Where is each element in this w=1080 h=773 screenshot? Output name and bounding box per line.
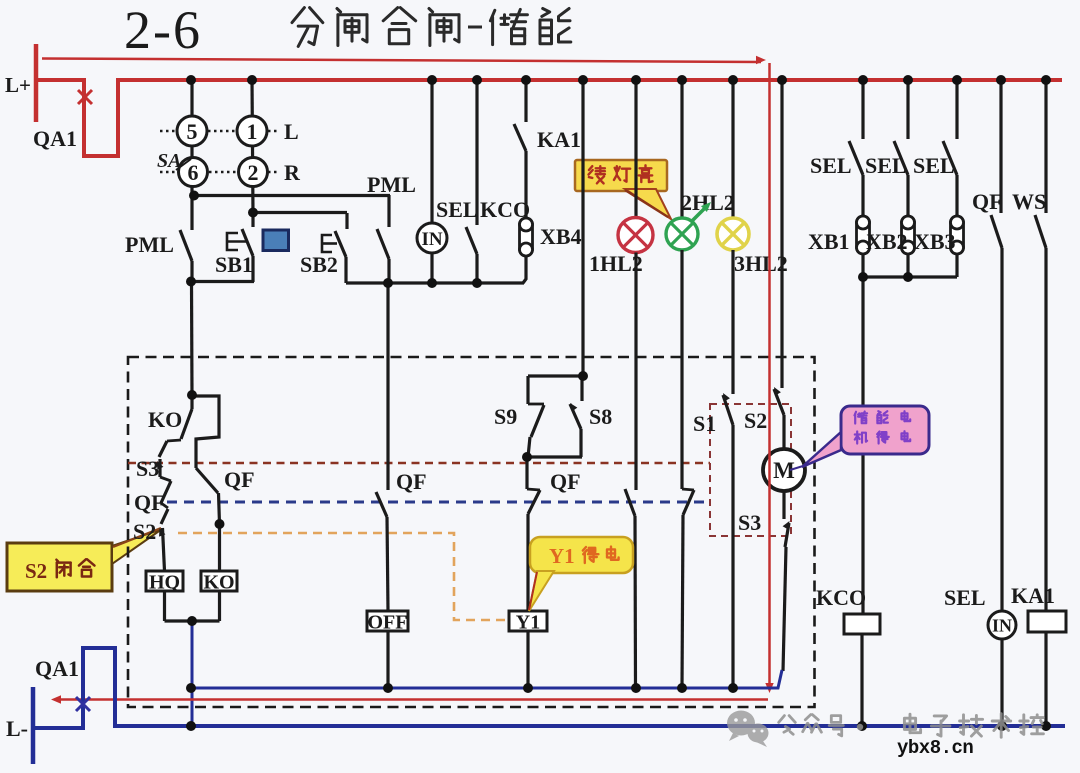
contact SEL over XB2 xyxy=(906,80,909,139)
callout chu-neng-dian-ji-de-dian (storage motor energized) xyxy=(841,406,929,454)
travel switch S3 xyxy=(783,521,790,530)
svg-text:Y1: Y1 xyxy=(516,612,540,634)
contact SEL over XB1 xyxy=(861,80,864,139)
svg-text:OFF: OFF xyxy=(368,612,408,634)
fuse link XB3 xyxy=(951,216,964,254)
svg-text:KO: KO xyxy=(203,572,234,594)
svg-text:QF: QF xyxy=(972,189,1003,214)
watermark gong-zhong-hao text xyxy=(779,716,796,735)
svg-text:S3: S3 xyxy=(738,510,761,535)
indicator IN circle bottom xyxy=(988,611,1016,639)
wire M to S3 xyxy=(782,491,785,519)
contact WS xyxy=(1044,80,1047,213)
svg-text:QA1: QA1 xyxy=(33,126,77,151)
svg-text:S9: S9 xyxy=(494,404,517,429)
contact QF above OFF xyxy=(376,492,387,517)
svg-text:SB2: SB2 xyxy=(300,252,338,277)
svg-text:ybx8.cn: ybx8.cn xyxy=(897,737,973,759)
coil OFF box xyxy=(367,611,408,631)
contact chain KO xyxy=(190,395,193,409)
contact SEL top-mid xyxy=(475,80,478,225)
coil Y1 box xyxy=(509,611,547,631)
wire 1HL2 down xyxy=(634,253,637,491)
callout box S2 bi-he (S2 closed) xyxy=(7,543,112,591)
wire column IN lamp xyxy=(430,80,433,223)
red return line with arrow xyxy=(56,698,768,701)
junction dots on L+ bus xyxy=(186,75,196,85)
svg-text:IN: IN xyxy=(421,229,442,250)
svg-text:S1: S1 xyxy=(693,411,716,436)
blue X mark on QA1 bottom xyxy=(76,697,90,711)
wire SB1 bottom row xyxy=(191,280,254,283)
wire OFF column xyxy=(386,283,389,490)
contact QF right branch xyxy=(192,396,219,468)
limit switch S9 xyxy=(526,376,529,404)
callout box lv-deng-liang (green lamp lit) xyxy=(575,160,667,191)
wire XB2 to row xyxy=(906,254,909,277)
rotary switch SA contact 6 xyxy=(179,158,208,187)
wire XB bottom row xyxy=(863,275,957,278)
L+ supply stub xyxy=(34,44,39,122)
wire XB1 to row xyxy=(861,254,864,277)
contact KA1 top xyxy=(524,80,527,122)
travel switch S1 xyxy=(723,393,730,402)
wire XB4 to row xyxy=(523,256,526,283)
rotary switch SA contact 5 xyxy=(177,116,207,146)
svg-text:S2: S2 xyxy=(25,559,47,583)
svg-text:SEL: SEL xyxy=(810,153,852,178)
indicator blue rectangle xyxy=(263,230,289,251)
large dashed enclosure box xyxy=(128,357,815,707)
wire column SA 1-2 from bus xyxy=(252,80,253,213)
wire KO bottom xyxy=(218,591,221,621)
wire coils to L- bus xyxy=(191,621,194,726)
wire Y1 to bottom xyxy=(526,631,529,688)
svg-text:XB1: XB1 xyxy=(808,229,850,254)
wire SB2-XB4 bottom row xyxy=(346,281,524,284)
wire OFF to bottom xyxy=(386,631,389,688)
svg-text:SEL: SEL xyxy=(944,585,986,610)
contact chain QF xyxy=(161,503,168,508)
red bus L+ with QA1 gap xyxy=(36,80,1062,156)
coil HQ box xyxy=(146,571,183,591)
contact QF top right xyxy=(999,80,1002,213)
contact QF mid xyxy=(525,457,528,489)
wire HQ bottom xyxy=(163,591,166,621)
svg-text:PML: PML xyxy=(125,232,174,257)
svg-text:2-6: 2-6 xyxy=(124,0,202,60)
limit switch S8 xyxy=(580,376,583,401)
travel switch S2 right xyxy=(774,387,781,396)
rotary switch SA contact 1 xyxy=(237,116,267,146)
red feedback line down xyxy=(768,63,771,686)
wire IN to row xyxy=(430,253,433,283)
contact QF under 2HL2 xyxy=(682,489,694,490)
wire XB row down to KCO xyxy=(861,277,864,614)
L- supply stub xyxy=(31,687,36,764)
wire 2HL2 down xyxy=(680,250,683,489)
watermark wechat icon xyxy=(727,711,769,748)
wire XB3 to row xyxy=(955,254,958,277)
blue dashed line QF level xyxy=(167,501,709,504)
svg-text:KA1: KA1 xyxy=(537,127,581,152)
svg-text:2HL2: 2HL2 xyxy=(681,190,735,215)
svg-text:L: L xyxy=(284,119,299,144)
wire column 1HL2 from bus xyxy=(634,80,637,218)
wire coils junction row xyxy=(165,619,220,622)
contact PML right xyxy=(387,195,390,227)
svg-text:IN: IN xyxy=(992,616,1012,636)
svg-text:2: 2 xyxy=(248,160,259,185)
svg-text:S2: S2 xyxy=(744,408,767,433)
svg-text:WS: WS xyxy=(1012,189,1046,214)
indicator IN circle xyxy=(417,223,447,253)
thin red feed line with arrow xyxy=(42,59,761,63)
svg-text:M: M xyxy=(773,458,795,483)
svg-text:QF: QF xyxy=(134,490,165,515)
wire column 3HL2 from bus xyxy=(731,80,734,218)
fuse link XB2 xyxy=(902,216,915,254)
wire S9-S8 bottom xyxy=(527,455,582,458)
svg-text:QF: QF xyxy=(396,469,427,494)
svg-text:PML: PML xyxy=(367,172,416,197)
wire PML-left bottom down to KO node xyxy=(190,282,194,395)
contact QF under 1HL2 xyxy=(625,489,635,516)
wire KA1 to L- bus xyxy=(1044,632,1047,726)
blue bus L- with QA1 gap xyxy=(33,648,1065,728)
lamp 2HL2 green xyxy=(666,218,698,250)
motor M circle xyxy=(763,449,805,491)
svg-text:SEL: SEL xyxy=(865,153,907,178)
dotted linkage row lower xyxy=(160,171,178,173)
wire node6 to PML-right xyxy=(194,194,390,197)
svg-text:1: 1 xyxy=(247,119,258,144)
wire column 2HL2 from bus xyxy=(680,80,683,218)
contact SEL over XB3 xyxy=(955,80,958,139)
svg-text:XB2: XB2 xyxy=(866,229,908,254)
junction dots elsewhere xyxy=(189,191,199,201)
svg-text:KO: KO xyxy=(148,407,182,432)
svg-text:HQ: HQ xyxy=(149,572,180,594)
svg-text:XB3: XB3 xyxy=(914,229,956,254)
contact chain S2 lead to HQ xyxy=(163,528,165,571)
svg-text:S3: S3 xyxy=(136,456,159,481)
wire column S2-M from bus xyxy=(780,80,783,388)
svg-text:Y1: Y1 xyxy=(549,544,575,568)
svg-text:L+: L+ xyxy=(5,73,31,97)
lamp 1HL2 red xyxy=(618,218,653,253)
dotted linkage row upper xyxy=(160,130,177,132)
svg-text:KA1: KA1 xyxy=(1011,583,1055,608)
svg-text:L-: L- xyxy=(6,716,28,741)
wire column S9-S8 from bus xyxy=(581,80,584,376)
coil KO box xyxy=(201,571,237,591)
svg-text:SEL: SEL xyxy=(436,197,478,222)
contact PML left xyxy=(190,196,193,230)
svg-text:SB1: SB1 xyxy=(215,252,253,277)
svg-text:R: R xyxy=(284,160,301,185)
dark-red dashed line S3 level xyxy=(128,462,710,464)
orange dashed line S2-Y1 path xyxy=(178,533,506,620)
wire 3HL2 down xyxy=(731,250,734,394)
green arrow to 2HL2 xyxy=(692,205,708,221)
svg-text:KCO: KCO xyxy=(816,585,866,610)
pushbutton SB1 xyxy=(251,213,254,227)
wire column SA 5-6 from bus xyxy=(190,80,193,196)
svg-text:QF: QF xyxy=(550,469,581,494)
rotary switch SA contact 2 xyxy=(239,158,268,187)
callout Y1 de-dian (Y1 energized) xyxy=(530,537,633,573)
wire S9 branch top xyxy=(528,374,583,377)
wire IN bottom to L- bus xyxy=(1000,639,1003,726)
red X mark on QA1 xyxy=(78,90,92,104)
svg-text:S2: S2 xyxy=(133,519,156,544)
wire KCO to L- bus xyxy=(860,634,863,726)
title fen-zha-he-zha-chu-neng xyxy=(292,8,323,47)
coil KA1 box xyxy=(1028,611,1066,632)
contact chain S3 xyxy=(158,459,161,477)
svg-text:6: 6 xyxy=(188,160,199,185)
pushbutton SB2 xyxy=(345,213,348,229)
svg-text:5: 5 xyxy=(187,119,198,144)
svg-text:QF: QF xyxy=(224,467,255,492)
svg-text:QA1: QA1 xyxy=(35,656,79,681)
svg-text:XB4: XB4 xyxy=(540,224,582,249)
small dark-red dashed box around S1 S2 xyxy=(710,404,791,536)
svg-text:SEL: SEL xyxy=(913,153,955,178)
coil KCO box xyxy=(844,614,880,634)
blue collector wire in dashed box xyxy=(191,670,782,688)
wire node2 to SB2 xyxy=(253,211,347,214)
svg-text:3HL2: 3HL2 xyxy=(734,251,788,276)
lamp 3HL2 yellow xyxy=(717,218,749,250)
svg-text:S8: S8 xyxy=(589,404,612,429)
fuse link XB4 xyxy=(520,218,533,256)
fuse link XB1 xyxy=(857,216,870,254)
